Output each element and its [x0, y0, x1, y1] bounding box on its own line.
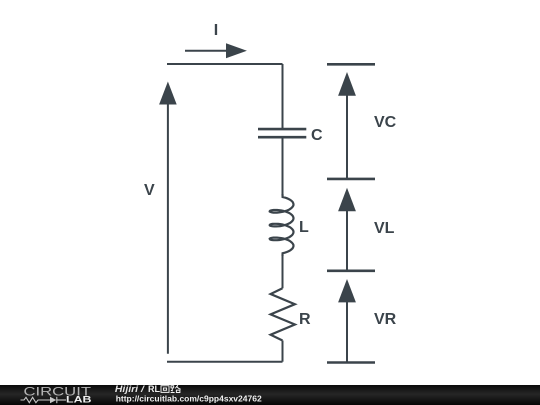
footer kanji 回路: [161, 385, 181, 392]
svg-text:C: C: [311, 127, 323, 144]
current arrow I: [185, 43, 247, 58]
voltage arrow V: [159, 82, 177, 354]
svg-text:L: L: [299, 219, 309, 236]
wire bottom horizontal: [167, 361, 283, 363]
node bar bottom: [327, 361, 375, 364]
svg-text:http://circuitlab.com/c9pp4sxv: http://circuitlab.com/c9pp4sxv24762: [116, 394, 262, 404]
svg-text:VC: VC: [374, 114, 397, 131]
voltage arrow VC: [338, 72, 356, 179]
svg-text:RL: RL: [148, 384, 160, 394]
voltage arrow VL: [338, 188, 356, 271]
wire resistor to bottom: [282, 341, 284, 362]
svg-text:VL: VL: [374, 220, 395, 237]
svg-text:I: I: [214, 22, 218, 39]
svg-text:R: R: [299, 311, 311, 328]
svg-text:LAB: LAB: [66, 395, 92, 405]
svg-text:V: V: [144, 182, 155, 199]
resistor R: [271, 288, 295, 340]
node bar mid2: [327, 269, 375, 272]
svg-text:Hijiri /: Hijiri /: [115, 384, 146, 394]
voltage arrow VR: [338, 279, 356, 363]
node bar top: [327, 63, 375, 66]
wire top horizontal: [167, 63, 283, 65]
svg-text:VR: VR: [374, 311, 397, 328]
wire inductor to resistor: [282, 256, 284, 288]
logo squiggle resistor-diode: [21, 397, 67, 403]
capacitor C: [258, 129, 306, 137]
inductor L: [270, 194, 294, 256]
node bar mid1: [327, 178, 375, 181]
wire right vertical to capacitor: [282, 64, 284, 129]
wire capacitor to inductor: [282, 137, 284, 194]
